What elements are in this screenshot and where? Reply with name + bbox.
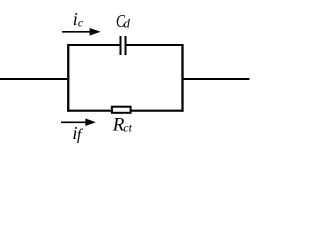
svg-text:d: d bbox=[124, 17, 131, 31]
wire: top branch right segment bbox=[127, 44, 184, 46]
wire: bottom branch right segment bbox=[132, 110, 184, 112]
wire: top branch left segment bbox=[67, 44, 119, 46]
svg-text:c: c bbox=[78, 16, 84, 30]
current arrow i_f bbox=[61, 118, 96, 126]
svg-text:f: f bbox=[77, 127, 84, 144]
wire: left lead bbox=[0, 78, 69, 80]
resistor Rct body bbox=[112, 107, 131, 113]
capacitor Cd plate right bbox=[125, 36, 127, 55]
wire: bottom branch left segment bbox=[67, 110, 112, 112]
capacitor Cd plate left bbox=[120, 36, 122, 55]
wire: left vertical branch bbox=[67, 44, 69, 112]
svg-text:ct: ct bbox=[123, 121, 132, 135]
wire: right lead bbox=[182, 78, 250, 80]
wire: right vertical branch bbox=[181, 44, 183, 112]
current arrow i_c bbox=[62, 28, 101, 36]
